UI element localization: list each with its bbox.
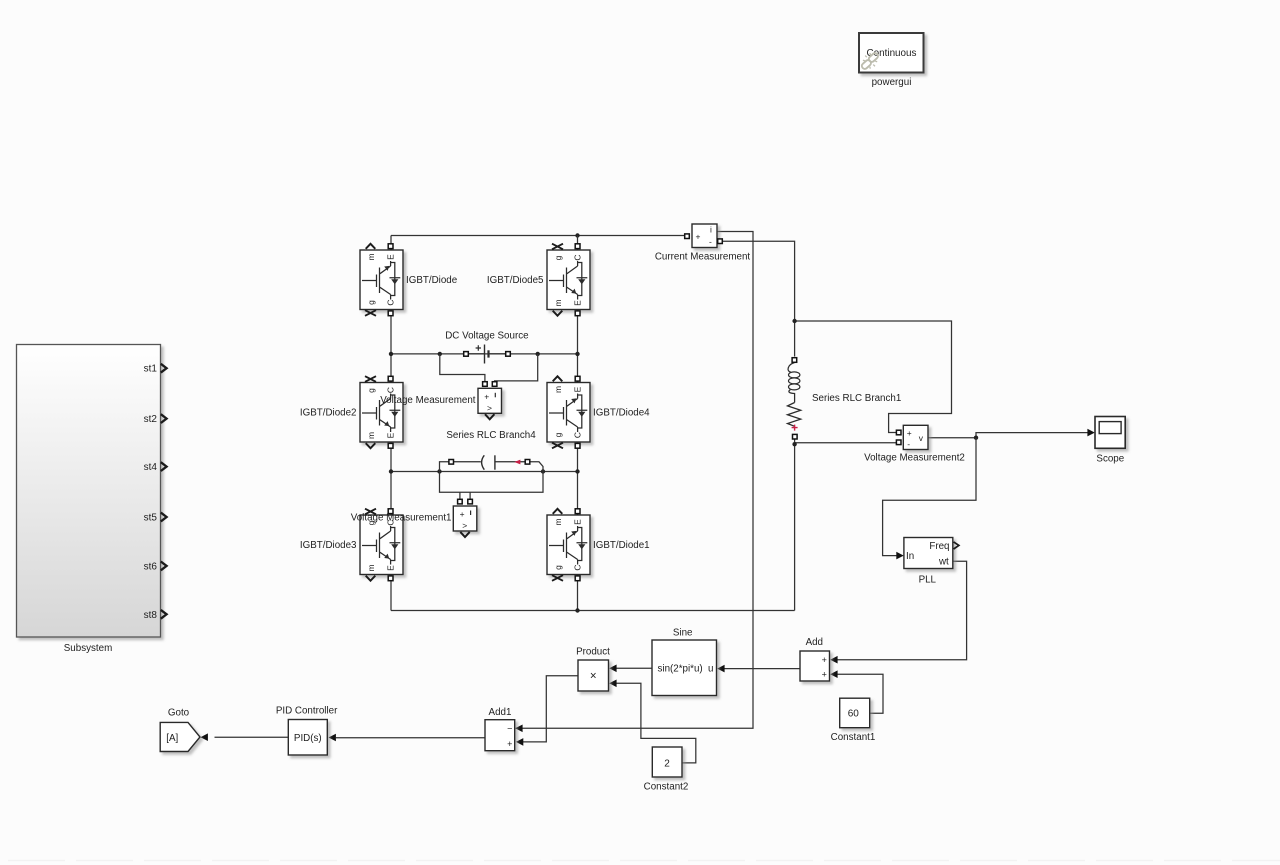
Constant2 block (644, 747, 689, 793)
Sine block (652, 627, 717, 695)
svg-text:×: × (590, 671, 597, 683)
svg-text:Voltage Measurement1: Voltage Measurement1 (351, 513, 452, 524)
wire RLC branch1 to VM2 minus (795, 442, 897, 444)
svg-text:Series RLC Branch4: Series RLC Branch4 (446, 430, 536, 441)
voltage measurement2 block (864, 425, 965, 463)
svg-text:m: m (553, 299, 563, 306)
svg-text:Sine: Sine (673, 627, 693, 638)
svg-text:Add: Add (806, 637, 823, 648)
svg-text:m: m (366, 564, 376, 571)
svg-text:IGBT/Diode5: IGBT/Diode5 (487, 275, 544, 286)
svg-text:E: E (573, 386, 583, 392)
svg-text:C: C (573, 432, 583, 438)
wire Product output to Add1 plus (523, 676, 579, 742)
svg-text:IGBT/Diode2: IGBT/Diode2 (300, 407, 357, 418)
svg-text:2: 2 (664, 758, 670, 769)
transistor IGBT/Diode2 (300, 376, 403, 448)
wire PID output to Goto (215, 736, 289, 738)
transistor IGBT/Diode (360, 244, 458, 316)
current measurement block (655, 224, 751, 263)
svg-text:PLL: PLL (919, 574, 937, 585)
svg-text:+: + (696, 232, 701, 242)
series RLC branch4 (capacitor) (446, 430, 536, 470)
svg-text:st1: st1 (144, 364, 158, 375)
transistor IGBT/Diode3 (300, 509, 403, 581)
svg-text:g: g (553, 432, 563, 437)
svg-text:-: - (709, 237, 712, 247)
svg-text:st5: st5 (144, 513, 158, 524)
svg-text:E: E (573, 300, 583, 306)
wire Constant2 to Product input2 (616, 683, 696, 763)
svg-text:i: i (710, 225, 712, 235)
wire Add1 output to PID (336, 737, 485, 739)
transistor IGBT/Diode5 (487, 244, 590, 316)
svg-text:60: 60 (848, 709, 860, 720)
svg-text:g: g (366, 388, 376, 393)
svg-text:st8: st8 (144, 610, 158, 621)
svg-text:m: m (366, 432, 376, 439)
wire current measurement i output to Add1 minus (516, 232, 753, 729)
svg-text:Current Measurement: Current Measurement (655, 252, 751, 263)
svg-text:+: + (822, 670, 827, 680)
svg-text:Product: Product (576, 646, 610, 657)
svg-text:>: > (462, 521, 467, 531)
svg-text:E: E (573, 519, 583, 525)
svg-text:[A]: [A] (166, 733, 178, 744)
svg-text:powergui: powergui (872, 77, 912, 88)
wire RLC branch1 top to VM2 plus (795, 321, 952, 433)
svg-text:m: m (553, 518, 563, 525)
svg-text:Scope: Scope (1096, 454, 1124, 465)
svg-text:v: v (919, 433, 924, 443)
transistor IGBT/Diode1 (547, 509, 650, 581)
wire voltage measurement1 taps (440, 472, 544, 493)
svg-text:g: g (553, 565, 563, 570)
svg-text:−: − (507, 724, 512, 734)
wire right rail (577, 236, 579, 611)
svg-text:u: u (708, 664, 713, 675)
wire bottom bus (391, 610, 795, 612)
wire left rail (390, 236, 392, 611)
svg-text:wt: wt (938, 557, 949, 568)
DC voltage source (445, 330, 529, 363)
svg-text:C: C (386, 387, 396, 393)
subsystem block (17, 345, 167, 655)
wire voltage measurement taps (440, 354, 485, 382)
svg-text:E: E (386, 565, 396, 571)
svg-text:st2: st2 (144, 414, 158, 425)
svg-text:+: + (507, 739, 512, 749)
wire DC source line (391, 353, 578, 355)
transistor IGBT/Diode4 (547, 376, 650, 448)
Product block (576, 646, 610, 691)
svg-text:+: + (907, 428, 912, 438)
svg-text:m: m (553, 386, 563, 393)
svg-text:IGBT/Diode3: IGBT/Diode3 (300, 540, 357, 551)
svg-text:C: C (573, 254, 583, 260)
svg-text:st4: st4 (144, 462, 158, 473)
wire capacitor line (391, 471, 578, 473)
svg-text:+: + (484, 391, 489, 401)
svg-text:IGBT/Diode: IGBT/Diode (406, 275, 458, 286)
voltage measurement block Voltage Measurement (380, 388, 501, 419)
svg-text:E: E (386, 432, 396, 438)
svg-text:Constant2: Constant2 (644, 782, 689, 793)
wire Sine output to Product input1 (616, 667, 652, 669)
svg-text:Voltage Measurement2: Voltage Measurement2 (864, 453, 965, 464)
svg-text:PID(s): PID(s) (294, 733, 322, 744)
svg-text:IGBT/Diode4: IGBT/Diode4 (593, 407, 650, 418)
PLL block (904, 538, 959, 586)
Add1 block (485, 707, 515, 751)
wire RLC branch1 bottom to bus (794, 439, 796, 611)
PID controller block (276, 706, 338, 756)
svg-text:C: C (573, 564, 583, 570)
svg-text:Goto: Goto (168, 708, 190, 719)
wire VM2 to PLL input (883, 438, 976, 556)
Goto block (160, 708, 200, 752)
Constant1 block (831, 698, 876, 743)
wire Add output to Sine input (724, 668, 800, 670)
svg-text:+: + (460, 509, 465, 519)
faint page-edge dashes (8, 860, 1280, 862)
svg-text:g: g (553, 255, 563, 260)
wire Constant1 to Add input2 (837, 674, 883, 713)
wire capacitor branch stubs (440, 462, 449, 472)
powergui block (859, 33, 924, 88)
wire top bus (391, 235, 684, 237)
svg-text:IGBT/Diode1: IGBT/Diode1 (593, 540, 650, 551)
Add block (800, 637, 830, 681)
svg-text:g: g (366, 300, 376, 305)
wire PLL wt to Add input1 (837, 561, 967, 660)
wire VM2 output (928, 433, 1088, 438)
svg-text:C: C (386, 299, 396, 305)
svg-text:E: E (386, 254, 396, 260)
svg-text:Subsystem: Subsystem (64, 643, 112, 654)
svg-text:Add1: Add1 (489, 707, 512, 718)
svg-text:Series RLC Branch1: Series RLC Branch1 (812, 393, 901, 404)
svg-text:Constant1: Constant1 (831, 732, 876, 743)
wire to scope arrow (1087, 429, 1094, 437)
svg-text:DC Voltage Source: DC Voltage Source (445, 330, 529, 341)
svg-text:PID Controller: PID Controller (276, 706, 338, 717)
svg-text:sin(2*pi*u): sin(2*pi*u) (658, 664, 703, 675)
svg-text:In: In (906, 551, 914, 562)
series RLC branch1 (inductor + resistor) (788, 363, 902, 431)
voltage measurement block Voltage Measurement1 (351, 506, 477, 537)
svg-text:+: + (822, 655, 827, 665)
svg-text:-: - (907, 439, 910, 449)
svg-text:m: m (366, 253, 376, 260)
svg-text:st6: st6 (144, 561, 158, 572)
svg-text:Voltage Measurement: Voltage Measurement (380, 395, 476, 406)
svg-text:Freq: Freq (929, 541, 949, 552)
wire current measurement minus to RLC branch1 (722, 241, 795, 356)
scope block (1095, 417, 1125, 465)
svg-text:>: > (487, 403, 492, 413)
